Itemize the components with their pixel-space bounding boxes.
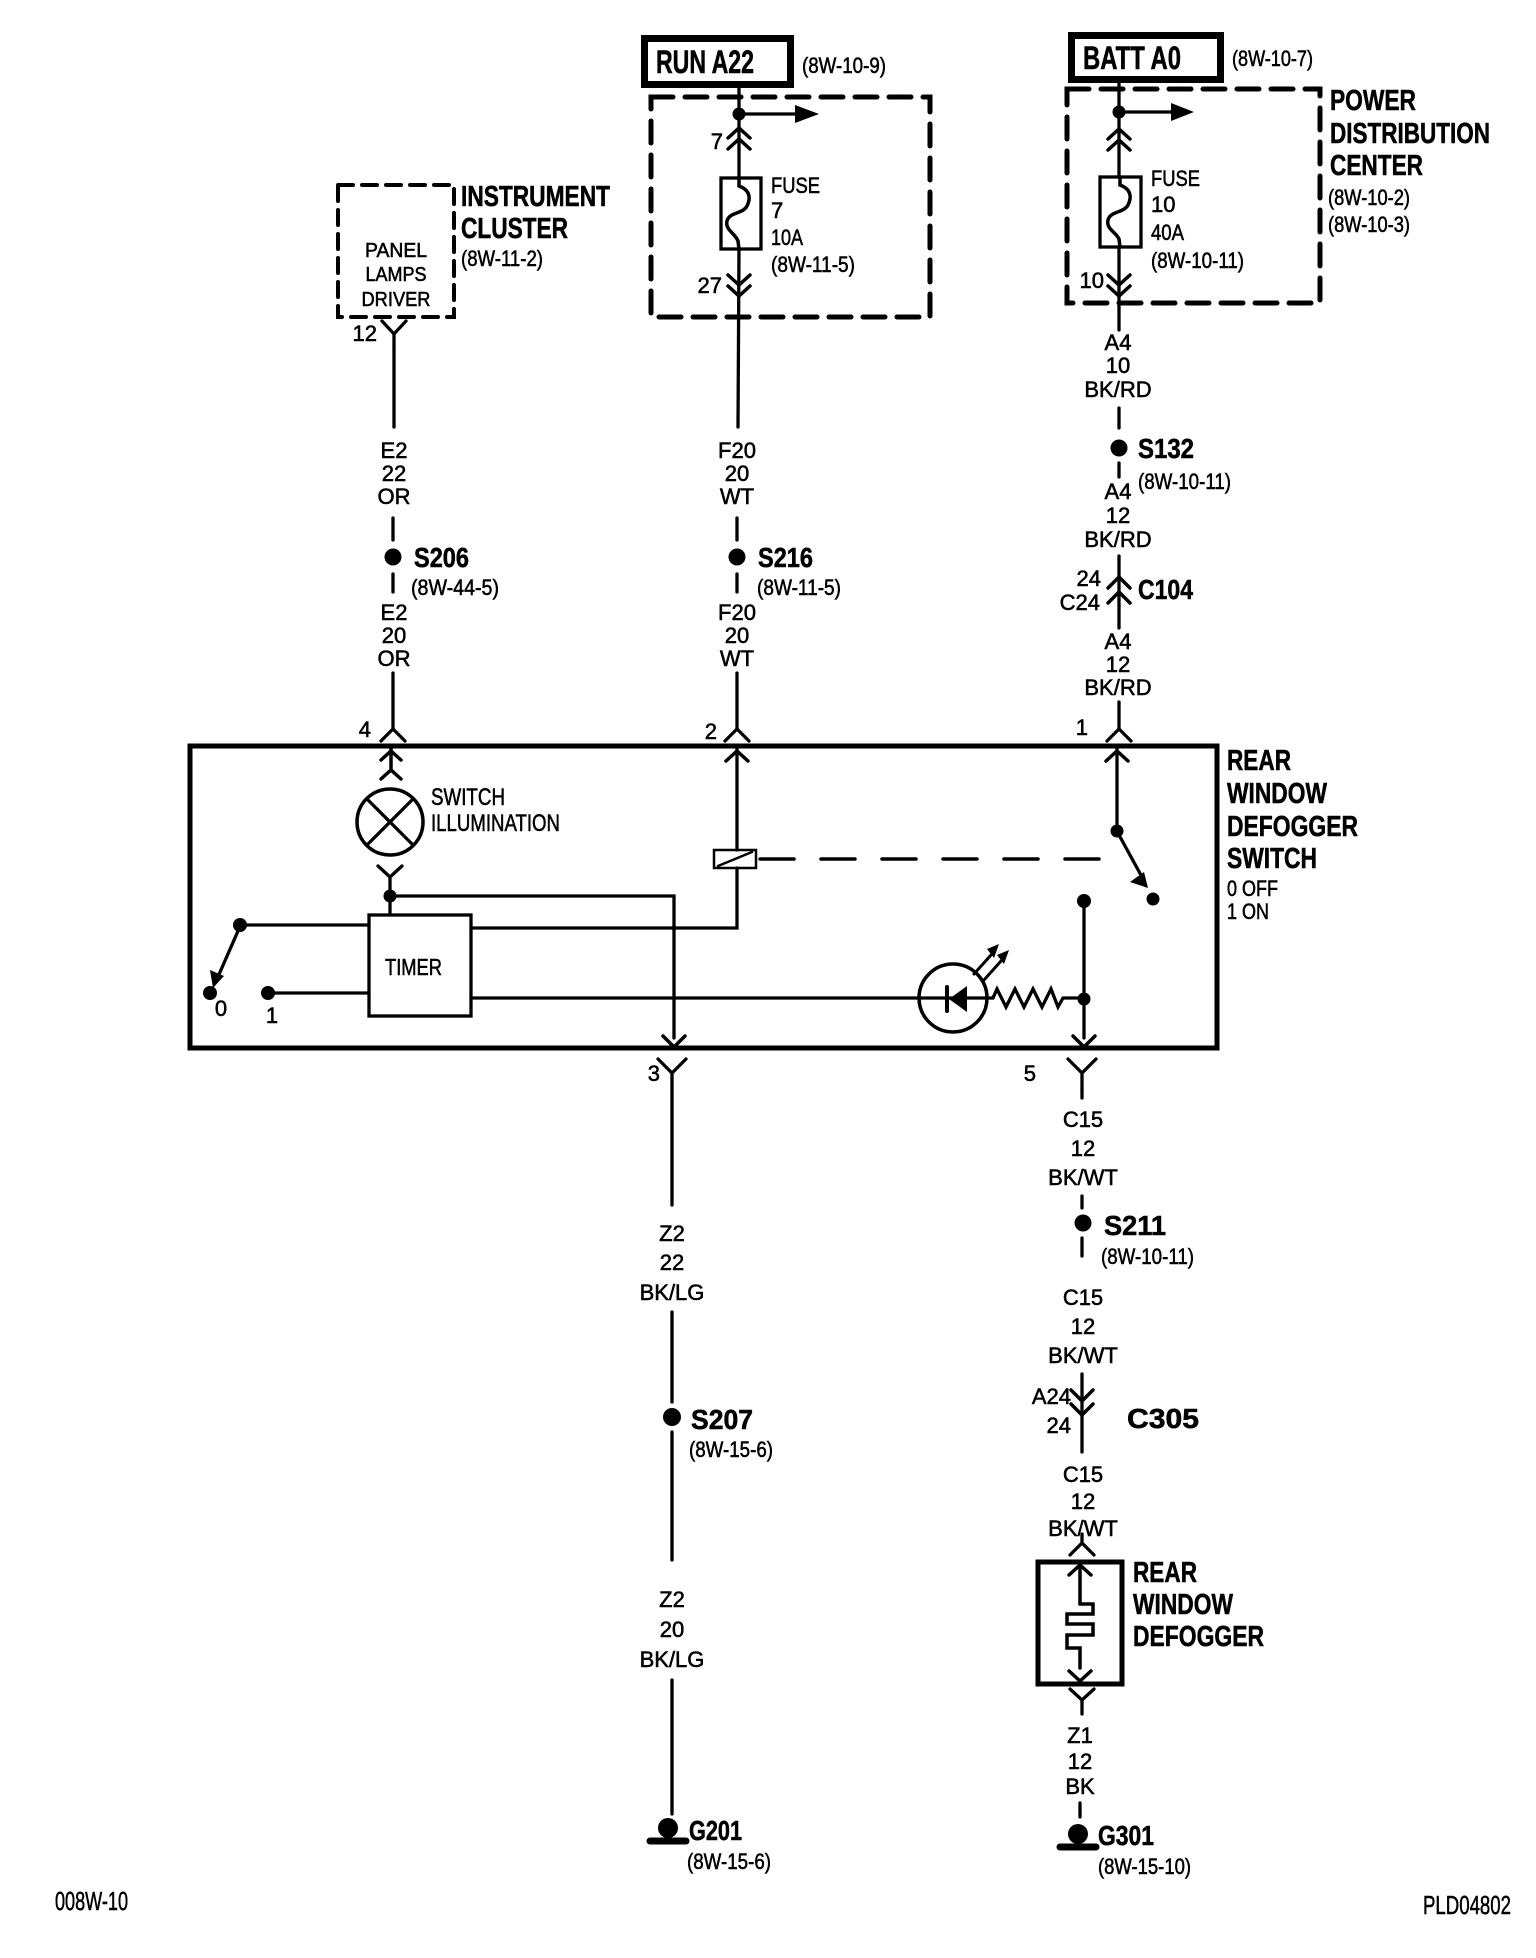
wire from BATT A0 xyxy=(1117,83,1120,108)
splice S206 xyxy=(385,542,500,600)
wire timer to relay coil xyxy=(471,868,737,928)
svg-text:C15: C15 xyxy=(1063,1285,1103,1310)
BATT A0 power feed box xyxy=(1072,36,1221,80)
connector fork pin 12 xyxy=(382,321,406,347)
fork below lamp xyxy=(378,866,402,891)
svg-text:(8W-10-11): (8W-10-11) xyxy=(1101,1244,1194,1269)
svg-text:1: 1 xyxy=(266,1003,278,1028)
splice S207 xyxy=(663,1404,773,1462)
svg-text:Z2: Z2 xyxy=(659,1221,685,1246)
svg-text:(8W-15-6): (8W-15-6) xyxy=(689,1437,773,1462)
terminal 1 male pin chevron xyxy=(1106,751,1128,761)
svg-text:INSTRUMENT: INSTRUMENT xyxy=(461,181,610,213)
wire label A4 12 BK/RD xyxy=(1084,629,1151,700)
svg-text:24: 24 xyxy=(1047,1413,1071,1438)
arrow to other circuits xyxy=(745,105,819,123)
svg-text:22: 22 xyxy=(382,461,406,486)
svg-text:WT: WT xyxy=(720,484,754,509)
label REAR WINDOW DEFOGGER SWITCH xyxy=(1227,745,1358,924)
terminal 3 male arrow xyxy=(663,1036,685,1047)
ground G201 xyxy=(650,1815,771,1874)
wire to switch terminal 4 xyxy=(391,673,394,729)
pin 10 connector chevrons (down) xyxy=(1108,275,1130,296)
svg-text:(8W-10-7): (8W-10-7) xyxy=(1232,46,1313,71)
connector C305 xyxy=(1032,1374,1199,1452)
svg-text:BATT A0: BATT A0 xyxy=(1083,40,1181,76)
wire xyxy=(670,1432,673,1560)
svg-text:(8W-10-9): (8W-10-9) xyxy=(802,53,886,78)
wire label C15 12 BK/WT xyxy=(1048,1285,1118,1368)
svg-text:A4: A4 xyxy=(1105,629,1132,654)
svg-text:12: 12 xyxy=(1106,503,1130,528)
label REAR WINDOW DEFOGGER xyxy=(1133,1557,1264,1653)
svg-text:E2: E2 xyxy=(381,600,408,625)
svg-text:12: 12 xyxy=(1106,652,1130,677)
svg-text:ILLUMINATION: ILLUMINATION xyxy=(431,810,560,837)
svg-text:DEFOGGER: DEFOGGER xyxy=(1133,1621,1264,1653)
svg-text:DEFOGGER: DEFOGGER xyxy=(1227,811,1358,843)
wire from RUN A22 xyxy=(737,88,740,110)
wire xyxy=(1080,1196,1083,1208)
svg-text:BK/WT: BK/WT xyxy=(1048,1343,1118,1368)
wire label Z2 22 BK/LG xyxy=(640,1221,705,1305)
svg-text:(8W-11-2): (8W-11-2) xyxy=(461,246,543,271)
wire to fuse xyxy=(1117,118,1120,177)
svg-text:S206: S206 xyxy=(414,542,469,573)
wire to switch terminal 1 xyxy=(1117,702,1120,729)
label POWER DISTRIBUTION CENTER xyxy=(1328,85,1490,237)
svg-text:PLD04802: PLD04802 xyxy=(1423,1890,1511,1920)
wire label A4 12 BK/RD xyxy=(1084,479,1151,552)
svg-text:REAR: REAR xyxy=(1227,745,1291,777)
splice S132 xyxy=(1111,433,1232,494)
svg-text:BK/LG: BK/LG xyxy=(640,1647,705,1672)
junction dot below lamp xyxy=(384,890,397,903)
svg-text:LAMPS: LAMPS xyxy=(366,264,427,286)
wire to fuse xyxy=(737,120,740,178)
fuse 7 (10A) xyxy=(721,178,761,249)
switch arm with arrowhead xyxy=(1119,835,1148,888)
svg-text:10A: 10A xyxy=(771,225,803,250)
svg-text:TIMER: TIMER xyxy=(385,954,442,980)
label INSTRUMENT CLUSTER (8W-11-2) xyxy=(461,181,610,271)
wire label A4 10 BK/RD xyxy=(1084,330,1151,402)
svg-text:20: 20 xyxy=(382,623,406,648)
fixed contact dot xyxy=(1077,894,1091,908)
svg-text:12: 12 xyxy=(353,321,377,346)
wire Z2 to label xyxy=(670,1089,673,1205)
svg-text:7: 7 xyxy=(711,129,723,154)
svg-text:(8W-15-10): (8W-15-10) xyxy=(1098,1854,1191,1879)
wire junction to timer xyxy=(388,902,391,915)
wire to ground xyxy=(670,1680,673,1814)
terminal 2 male pin chevron xyxy=(726,751,748,761)
wire contact to timer xyxy=(247,923,369,926)
svg-text:C305: C305 xyxy=(1127,1403,1199,1434)
ground G301 xyxy=(1060,1820,1191,1879)
svg-text:OR: OR xyxy=(378,484,411,509)
svg-text:F20: F20 xyxy=(718,438,756,463)
timer box xyxy=(369,915,471,1016)
svg-text:12: 12 xyxy=(1071,1314,1095,1339)
fork at defogger connector xyxy=(1070,1534,1094,1555)
wire to switch terminal 2 xyxy=(735,673,738,729)
wire xyxy=(735,518,738,540)
svg-text:FUSE: FUSE xyxy=(771,173,820,198)
junction dot xyxy=(733,108,746,121)
pin 7 connector chevrons xyxy=(728,128,750,149)
switch pivot dot xyxy=(1111,825,1124,838)
svg-text:BK/LG: BK/LG xyxy=(640,1280,705,1305)
position 0 contact dot xyxy=(203,986,217,1000)
wire junction to terminal 3 with corner xyxy=(396,896,674,1038)
svg-text:BK/RD: BK/RD xyxy=(1084,675,1151,700)
svg-text:S216: S216 xyxy=(758,542,813,573)
svg-text:10: 10 xyxy=(1106,353,1130,378)
mechanical linkage dashed line xyxy=(760,857,1120,861)
svg-text:C15: C15 xyxy=(1063,1462,1103,1487)
connector C104 xyxy=(1060,556,1194,628)
terminal 2 female fork xyxy=(725,729,749,741)
pin 10 chevrons (up) xyxy=(1108,129,1130,150)
wire terminal 1 to pivot xyxy=(1115,748,1118,826)
svg-text:SWITCH: SWITCH xyxy=(431,784,505,811)
svg-text:C24: C24 xyxy=(1060,590,1100,615)
svg-text:WINDOW: WINDOW xyxy=(1227,778,1327,810)
defogger grid element xyxy=(1067,1604,1093,1668)
terminal 5 female fork xyxy=(1068,1059,1096,1089)
terminal 4 female fork xyxy=(381,729,405,741)
svg-text:0 OFF: 0 OFF xyxy=(1227,876,1278,901)
svg-text:22: 22 xyxy=(660,1250,684,1275)
svg-text:12: 12 xyxy=(1071,1136,1095,1161)
wire label F20 20 WT xyxy=(718,600,756,671)
wire E2 22 OR upper segment xyxy=(392,347,395,427)
junction dot at resistor xyxy=(1078,993,1091,1006)
resistor xyxy=(993,989,1078,1007)
svg-text:008W-10: 008W-10 xyxy=(55,1886,128,1916)
wire xyxy=(1117,408,1120,428)
svg-text:S132: S132 xyxy=(1138,433,1194,464)
wire label Z1 12 BK xyxy=(1065,1723,1095,1799)
svg-text:A24: A24 xyxy=(1032,1384,1071,1409)
svg-text:(8W-44-5): (8W-44-5) xyxy=(411,575,499,600)
LED light arrows xyxy=(974,944,1009,980)
svg-text:OR: OR xyxy=(378,646,411,671)
wire position 1 to timer xyxy=(275,991,369,994)
wire label C15 12 BK/WT xyxy=(1048,1462,1118,1541)
wire label C15 12 BK/WT xyxy=(1048,1107,1118,1190)
svg-text:(8W-10-11): (8W-10-11) xyxy=(1138,469,1231,494)
svg-text:20: 20 xyxy=(660,1617,684,1642)
fork below defogger xyxy=(1070,1689,1094,1714)
position 1 contact dot xyxy=(261,986,275,1000)
svg-text:(8W-11-5): (8W-11-5) xyxy=(757,575,841,600)
switch illumination lamp xyxy=(357,789,423,855)
power distribution center dashed box xyxy=(1067,89,1320,303)
wire timer to LED xyxy=(471,996,993,999)
wire xyxy=(670,1312,673,1402)
svg-text:0: 0 xyxy=(215,996,227,1021)
wire label E2 22 OR xyxy=(378,438,411,509)
svg-text:A4: A4 xyxy=(1105,479,1132,504)
svg-text:CLUSTER: CLUSTER xyxy=(461,213,568,245)
svg-text:G201: G201 xyxy=(689,1815,742,1846)
svg-text:POWER: POWER xyxy=(1330,85,1416,117)
svg-text:DRIVER: DRIVER xyxy=(362,289,431,311)
svg-text:S207: S207 xyxy=(691,1404,753,1435)
wire xyxy=(391,518,394,540)
wire through PDC bottom xyxy=(1117,247,1120,330)
svg-text:REAR: REAR xyxy=(1133,1557,1197,1589)
switch arm with arrowhead xyxy=(210,931,238,988)
terminal 5 male arrow xyxy=(1073,1036,1095,1047)
switch arm end dot xyxy=(1147,893,1160,906)
svg-text:40A: 40A xyxy=(1151,220,1184,245)
wire label E2 20 OR xyxy=(378,600,411,671)
svg-text:1 ON: 1 ON xyxy=(1227,899,1269,924)
svg-text:Z1: Z1 xyxy=(1067,1723,1093,1748)
svg-text:12: 12 xyxy=(1068,1749,1092,1774)
svg-text:E2: E2 xyxy=(381,438,408,463)
svg-text:(8W-10-3): (8W-10-3) xyxy=(1328,212,1410,237)
wire xyxy=(1117,463,1120,477)
wire F20 to label xyxy=(738,249,739,427)
wire fixed contact to terminal 5 xyxy=(1082,908,1085,1038)
lamp label SWITCH ILLUMINATION xyxy=(431,784,560,837)
junction dot xyxy=(1113,106,1126,119)
svg-text:4: 4 xyxy=(359,717,371,742)
svg-text:(8W-10-2): (8W-10-2) xyxy=(1328,185,1410,210)
wire to ground xyxy=(1078,1803,1081,1817)
ignition run circuit dashed box xyxy=(651,97,930,317)
wire C15 to label xyxy=(1080,1089,1083,1098)
svg-text:DISTRIBUTION: DISTRIBUTION xyxy=(1330,118,1490,150)
RUN A22 power feed box xyxy=(645,39,791,85)
svg-text:BK/RD: BK/RD xyxy=(1084,527,1151,552)
svg-text:(8W-11-5): (8W-11-5) xyxy=(771,252,855,277)
arrow to other circuits xyxy=(1125,103,1194,121)
wire label F20 20 WT xyxy=(718,438,756,509)
svg-text:C104: C104 xyxy=(1138,574,1193,605)
rear window defogger box xyxy=(1038,1562,1122,1684)
svg-text:RUN A22: RUN A22 xyxy=(656,44,754,80)
svg-text:SWITCH: SWITCH xyxy=(1227,843,1317,875)
svg-text:A4: A4 xyxy=(1105,330,1132,355)
svg-text:1: 1 xyxy=(1076,715,1088,740)
switch common contact dot xyxy=(233,918,247,932)
wire xyxy=(391,574,394,592)
svg-text:10: 10 xyxy=(1151,192,1175,217)
terminal 3 female fork xyxy=(658,1059,686,1089)
svg-text:C15: C15 xyxy=(1063,1107,1103,1132)
svg-text:S211: S211 xyxy=(1104,1210,1166,1241)
defogger bottom arrow xyxy=(1069,1671,1091,1681)
svg-text:2: 2 xyxy=(705,719,717,744)
svg-text:27: 27 xyxy=(698,273,722,298)
pin 27 connector chevrons xyxy=(728,275,750,296)
svg-text:3: 3 xyxy=(648,1061,660,1086)
svg-text:5: 5 xyxy=(1024,1061,1036,1086)
defogger male pin arrow xyxy=(1069,1565,1091,1604)
svg-text:20: 20 xyxy=(725,623,749,648)
svg-text:BK/RD: BK/RD xyxy=(1084,377,1151,402)
svg-text:24: 24 xyxy=(1077,566,1101,591)
svg-text:BK/WT: BK/WT xyxy=(1048,1165,1118,1190)
wire terminal 2 to relay coil xyxy=(735,748,738,850)
svg-text:WT: WT xyxy=(720,646,754,671)
wire label Z2 20 BK/LG xyxy=(640,1587,705,1672)
terminal 1 female fork xyxy=(1107,729,1131,741)
relay coil xyxy=(714,850,756,868)
fuse 10 (40A) xyxy=(1100,177,1141,247)
svg-text:20: 20 xyxy=(725,461,749,486)
rear window defogger switch box xyxy=(190,746,1217,1048)
svg-text:G301: G301 xyxy=(1098,1820,1154,1851)
svg-text:7: 7 xyxy=(771,198,783,223)
fuse labels xyxy=(771,173,855,277)
svg-text:WINDOW: WINDOW xyxy=(1133,1589,1233,1621)
svg-text:BK: BK xyxy=(1065,1774,1095,1799)
terminal 4 male pin xyxy=(381,748,401,779)
svg-text:(8W-15-6): (8W-15-6) xyxy=(687,1849,771,1874)
fuse labels xyxy=(1151,166,1244,273)
svg-text:FUSE: FUSE xyxy=(1151,166,1200,191)
wire xyxy=(735,574,738,592)
svg-text:(8W-10-11): (8W-10-11) xyxy=(1151,248,1244,273)
wire xyxy=(1080,1238,1083,1256)
svg-text:CENTER: CENTER xyxy=(1330,150,1423,182)
svg-text:12: 12 xyxy=(1071,1489,1095,1514)
svg-text:10: 10 xyxy=(1080,268,1104,293)
LED indicator xyxy=(919,964,987,1032)
instrument cluster dashed box (PANEL LAMPS DRIVER) xyxy=(338,185,454,317)
svg-text:Z2: Z2 xyxy=(659,1587,685,1612)
splice S211 xyxy=(1075,1210,1195,1269)
svg-text:PANEL: PANEL xyxy=(365,240,427,262)
svg-text:F20: F20 xyxy=(718,600,756,625)
splice S216 xyxy=(729,542,842,600)
